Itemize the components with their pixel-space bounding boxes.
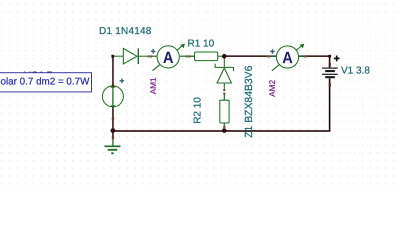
svg-text:AM1: AM1 <box>148 77 158 94</box>
node junction at R2 bottom <box>222 128 227 133</box>
label AM2 <box>267 79 277 96</box>
svg-text:D1 1N4148: D1 1N4148 <box>99 26 152 37</box>
label D1 1N4148 <box>99 26 152 37</box>
wire: AM1 right to R1 left <box>180 56 195 57</box>
terminal tick battery bottom <box>329 83 331 86</box>
wire: ground stub below junction <box>112 131 114 139</box>
terminal tick Z1 bottom / R2 top <box>223 89 225 94</box>
terminal tick VG1 top <box>112 84 114 87</box>
svg-text:R2 10: R2 10 <box>193 97 204 124</box>
svg-text:olar 0.7 dm2 = 0.7W: olar 0.7 dm2 = 0.7W <box>1 77 91 88</box>
wire: VG1 bottom to ground node <box>112 107 114 131</box>
svg-text:Z1 BZX84B3V6: Z1 BZX84B3V6 <box>244 65 255 137</box>
diode D1 <box>113 48 149 64</box>
label R2 10 <box>193 97 204 124</box>
wire: top rail from D1/AM1 terminal to AM1 <box>148 56 158 57</box>
terminal tick VG1 bottom <box>112 117 114 120</box>
corner node top-right <box>328 55 331 58</box>
wire: left vertical from top-left corner down to VG1 <box>112 55 114 86</box>
wire: node A junction to AM2 left <box>224 55 277 57</box>
svg-text:AM2: AM2 <box>267 79 277 96</box>
wire: battery bottom vertical down to bottom rail <box>329 79 331 132</box>
node junction at ground <box>111 128 116 133</box>
label V1 3.8 <box>341 66 370 77</box>
wire: AM2 right to battery corner <box>299 55 331 57</box>
ammeter AM2 circle <box>276 46 298 68</box>
terminal tick AM2 left <box>267 55 270 57</box>
op arrow of ammeter AM1 <box>153 44 185 71</box>
label Z1 BZX84B3V6 <box>244 65 255 137</box>
terminal tick AM1-R1 <box>186 55 191 57</box>
battery V1 plates <box>322 68 338 77</box>
op-amp ammeter AM1 circle <box>157 46 179 68</box>
plus sign at VG1 <box>120 79 125 84</box>
terminal tick D1-AM1 <box>148 55 152 57</box>
corner node top-left <box>111 55 114 58</box>
node junction at R1/Z1/AM2 (node A) <box>222 54 227 59</box>
terminal tick R2 bottom <box>223 126 225 129</box>
svg-text:V1 3.8: V1 3.8 <box>341 66 370 77</box>
wire: bottom rail <box>112 130 330 132</box>
wire: battery top lead vertical <box>329 55 331 68</box>
plus sign at AM1 <box>151 49 156 54</box>
text box (annotation) <box>0 73 92 92</box>
AM2 right lead <box>299 55 306 57</box>
plus sign at AM2 <box>270 49 275 54</box>
label R1 10 <box>188 38 215 49</box>
svg-text:R1 10: R1 10 <box>188 38 215 49</box>
terminal tick ground <box>112 137 114 139</box>
voltage generator VG1 circle <box>102 86 123 107</box>
terminal tick battery top <box>329 63 331 66</box>
resistor R1 <box>189 52 224 61</box>
plus sign at battery V1 <box>334 56 340 62</box>
ground symbol <box>104 139 120 154</box>
zener diode Z1 <box>215 56 233 90</box>
label AM1 <box>148 77 158 94</box>
AM2 left lead <box>270 55 276 57</box>
resistor R2 <box>220 94 229 130</box>
hidden label VG1 (mostly covered by text box) <box>24 70 53 81</box>
op arrow of ammeter AM2 <box>272 44 304 71</box>
terminal tick AM2 right <box>304 55 307 57</box>
